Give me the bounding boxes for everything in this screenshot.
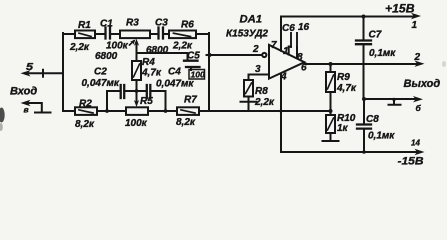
svg-text:1: 1 — [283, 46, 289, 57]
svg-text:7: 7 — [271, 40, 277, 51]
svg-text:2,2к: 2,2к — [69, 42, 90, 53]
svg-text:С5: С5 — [187, 51, 200, 62]
svg-text:16: 16 — [298, 22, 310, 33]
svg-text:Выход: Выход — [404, 78, 441, 90]
svg-text:С6: С6 — [282, 23, 295, 34]
svg-text:4: 4 — [280, 72, 287, 83]
svg-text:R3: R3 — [126, 18, 139, 29]
svg-text:+15В: +15В — [385, 3, 415, 15]
svg-text:R9: R9 — [337, 72, 350, 83]
svg-text:-15В: -15В — [398, 156, 424, 168]
svg-text:R5: R5 — [140, 96, 153, 107]
svg-text:2: 2 — [252, 44, 259, 55]
svg-text:С7: С7 — [369, 30, 382, 41]
svg-text:К153УД2: К153УД2 — [226, 29, 268, 40]
svg-text:0,1мк: 0,1мк — [369, 48, 396, 59]
svg-text:0,047мк: 0,047мк — [156, 79, 194, 90]
svg-text:8,2к: 8,2к — [75, 119, 95, 130]
svg-text:100к: 100к — [125, 118, 148, 129]
svg-text:1к: 1к — [337, 123, 349, 134]
svg-text:6: 6 — [301, 63, 307, 74]
svg-text:DA1: DA1 — [240, 14, 263, 26]
svg-text:100: 100 — [191, 70, 205, 80]
svg-text:4,7к: 4,7к — [336, 83, 357, 94]
svg-text:R2: R2 — [79, 99, 92, 110]
svg-text:14: 14 — [411, 139, 420, 148]
svg-text:4,7к: 4,7к — [141, 68, 162, 79]
svg-text:C1: C1 — [100, 19, 113, 30]
svg-text:2: 2 — [414, 52, 421, 63]
svg-text:5: 5 — [26, 62, 34, 73]
svg-text:R1: R1 — [78, 20, 91, 31]
svg-text:0,1мк: 0,1мк — [368, 131, 395, 142]
svg-text:100к: 100к — [106, 41, 129, 52]
svg-text:6800: 6800 — [95, 51, 118, 62]
svg-text:1: 1 — [412, 20, 418, 31]
svg-text:R8: R8 — [255, 86, 268, 97]
svg-text:R7: R7 — [184, 95, 197, 106]
svg-text:Вход: Вход — [10, 86, 37, 98]
svg-text:8,2к: 8,2к — [176, 117, 196, 128]
svg-text:в: в — [24, 104, 29, 114]
svg-text:R6: R6 — [181, 20, 194, 31]
svg-text:R4: R4 — [142, 57, 155, 68]
svg-text:6800: 6800 — [146, 45, 169, 56]
svg-text:С3: С3 — [155, 18, 168, 29]
svg-text:С4: С4 — [168, 67, 181, 78]
svg-text:8: 8 — [297, 52, 303, 63]
svg-text:2,2к: 2,2к — [254, 97, 275, 108]
svg-text:С2: С2 — [94, 67, 107, 78]
svg-text:3: 3 — [255, 64, 261, 75]
svg-text:б: б — [416, 103, 422, 113]
svg-text:0,047мк: 0,047мк — [82, 78, 120, 89]
svg-text:С8: С8 — [366, 114, 379, 125]
